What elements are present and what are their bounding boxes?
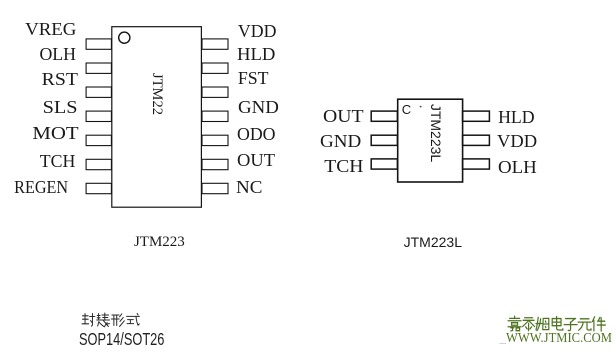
pin label NC <box>236 177 262 197</box>
pin label HLD <box>237 44 275 64</box>
IC U2 pin-1 marking letter C <box>402 103 411 117</box>
pin label OLH (U2) <box>498 157 537 177</box>
U2 pin 2 lead (GND) <box>371 135 397 145</box>
char 件 <box>592 317 605 331</box>
pin label REGEN <box>6 177 68 197</box>
U1 pin 12 lead (FST) <box>202 87 228 97</box>
U1 pin 14 lead (VDD) <box>202 39 228 49</box>
U2 pin 4 lead (OLH) <box>463 159 490 169</box>
pin label MOT <box>0 123 79 143</box>
caption JTM223L <box>404 234 462 250</box>
char 形 <box>111 314 124 327</box>
pin label OUT <box>237 150 275 170</box>
watermark 嘉泰姆电子元件 + WWW.JTMIC.COM <box>506 332 612 346</box>
pin label FST <box>238 68 269 88</box>
char 式 <box>127 313 140 325</box>
char 子 <box>564 319 577 331</box>
IC U1 pin-1 orientation mark <box>119 32 130 43</box>
pin label OLH <box>0 44 76 64</box>
pin label OUT (U2) <box>271 106 364 126</box>
watermark underscore <box>500 330 507 346</box>
pin label ODO <box>237 124 276 144</box>
char 泰 <box>523 318 535 331</box>
IC U1 JTM223 body <box>112 27 202 208</box>
U1 pin 11 lead (GND) <box>202 111 228 121</box>
pin label VREG <box>0 19 76 39</box>
pin label GND (U2) <box>274 131 361 151</box>
pin label VDD <box>238 21 277 41</box>
char 装 <box>97 313 110 327</box>
U1 pin 9 lead (OUT) <box>202 159 228 169</box>
U1 pin 10 lead (ODO) <box>202 135 228 145</box>
U1 pin 2 lead (OLH) <box>86 63 111 73</box>
U2 pin 3 lead (TCH) <box>371 159 397 169</box>
U1 pin 4 lead (SLS) <box>86 111 111 121</box>
pin label HLD (U2) <box>498 107 535 127</box>
U1 pin 1 lead (VREG) <box>86 39 111 49</box>
caption JTM223 <box>134 233 185 251</box>
U1 pin 7 lead (REGEN) <box>86 183 111 193</box>
pin label GND <box>238 97 279 117</box>
U2 pin-1 mark dot <box>420 106 422 108</box>
IC U1 package marking JTM22 (rotated) <box>149 73 165 115</box>
IC U2 package marking JTM223L (rotated) <box>428 104 444 162</box>
U1 pin 13 lead (HLD) <box>202 63 228 73</box>
U1 pin 8 lead (NC) <box>202 183 228 193</box>
U1 pin 6 lead (TCH) <box>86 159 111 169</box>
IC U2 JTM223L body <box>398 99 463 182</box>
U1 pin 5 lead (MOT) <box>86 135 111 145</box>
char 元 <box>578 319 591 330</box>
pin label VDD (U2) <box>497 131 537 151</box>
char 姆 <box>536 317 549 330</box>
U2 pin 5 lead (VDD) <box>463 135 490 145</box>
pin label TCH (U2) <box>272 156 364 176</box>
pin label RST <box>0 69 78 89</box>
char 嘉 <box>508 316 521 331</box>
U1 pin 3 lead (RST) <box>86 87 111 97</box>
char 封 <box>82 314 95 327</box>
pin label SLS <box>0 97 78 117</box>
U2 pin 6 lead (HLD) <box>463 111 490 121</box>
pin label TCH <box>0 151 75 171</box>
text SOP14/SOT26 (package types) <box>79 330 164 348</box>
U2 pin 1 lead (OUT) <box>371 111 397 121</box>
char 电 <box>552 317 563 331</box>
